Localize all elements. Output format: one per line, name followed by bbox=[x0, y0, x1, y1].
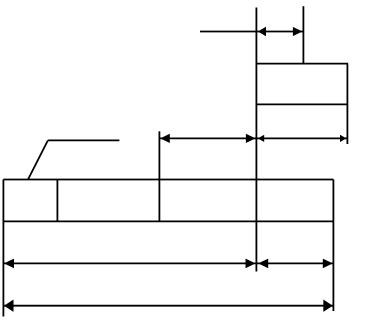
leader line diagonal bbox=[28, 140, 48, 179]
leader line horizontal bbox=[48, 139, 120, 141]
main box right edge / extension line bbox=[332, 180, 334, 312]
top dimension line with left tail bbox=[200, 31, 303, 33]
lower dimension line B bbox=[3, 305, 333, 307]
upper box top edge bbox=[256, 63, 348, 65]
arrowhead, middle dim far right bbox=[340, 135, 346, 142]
middle dimension extension line / main box divider 2 bbox=[158, 131, 160, 221]
arrowhead, middle dim center-right bbox=[258, 135, 264, 142]
arrowhead, middle dim center-left bbox=[246, 134, 256, 143]
arrowhead, middle dim far left bbox=[160, 134, 170, 143]
upper box right edge / extension line bbox=[346, 64, 348, 144]
arrowhead, top dimension right bbox=[293, 27, 303, 36]
arrowhead, dim A center-left bbox=[246, 259, 256, 269]
arrowhead, top dimension left bbox=[258, 27, 266, 37]
main box bottom edge bbox=[3, 220, 333, 222]
main box left edge / extension line bbox=[2, 180, 4, 317]
arrowhead, dim A far left bbox=[4, 259, 14, 269]
arrowhead, dim A center-right bbox=[258, 259, 268, 269]
arrowhead, dim A far right bbox=[323, 259, 333, 269]
extension line, top dimension left (long center line through boxes) bbox=[255, 8, 257, 272]
upper box bottom edge bbox=[256, 103, 348, 105]
main box divider 1 bbox=[56, 180, 58, 222]
extension line, top dimension right bbox=[302, 6, 304, 63]
arrowhead, dim B left bbox=[4, 300, 14, 312]
lower dimension line A bbox=[3, 262, 333, 264]
main box top edge bbox=[3, 179, 333, 181]
middle dimension line bbox=[159, 137, 347, 139]
arrowhead, dim B right bbox=[323, 300, 333, 312]
